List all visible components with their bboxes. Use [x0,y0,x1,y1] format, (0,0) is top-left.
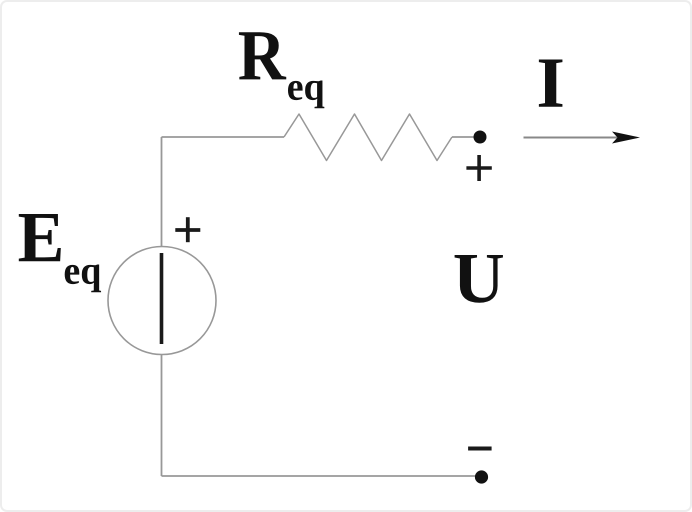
label E (source) [19,214,61,261]
label eq subscript of R [288,80,324,108]
wire: top horizontal from source to resistor [162,136,285,138]
node: negative output terminal dot [475,470,488,483]
wire: left vertical upper (circle top to corner) [161,137,163,247]
current arrow I: head [612,132,640,144]
wire: resistor to positive terminal [452,136,474,138]
resistor R_eq zigzag [284,114,452,161]
current arrow I: shaft [524,137,619,139]
wire: bottom horizontal to negative terminal [162,475,477,477]
voltage source U1 circle [108,247,216,355]
wire: left vertical lower (circle bottom to bottom corner) [161,354,163,476]
label I (current) [539,60,563,107]
label U (output voltage) [455,255,503,303]
label eq subscript of E [65,264,101,292]
voltage source internal bar [160,253,164,344]
node: positive output terminal dot [474,131,487,144]
minus sign at output terminal [468,447,492,451]
plus sign at source [175,217,200,242]
plus sign at output terminal [466,155,491,181]
label R (resistor) [239,32,286,79]
